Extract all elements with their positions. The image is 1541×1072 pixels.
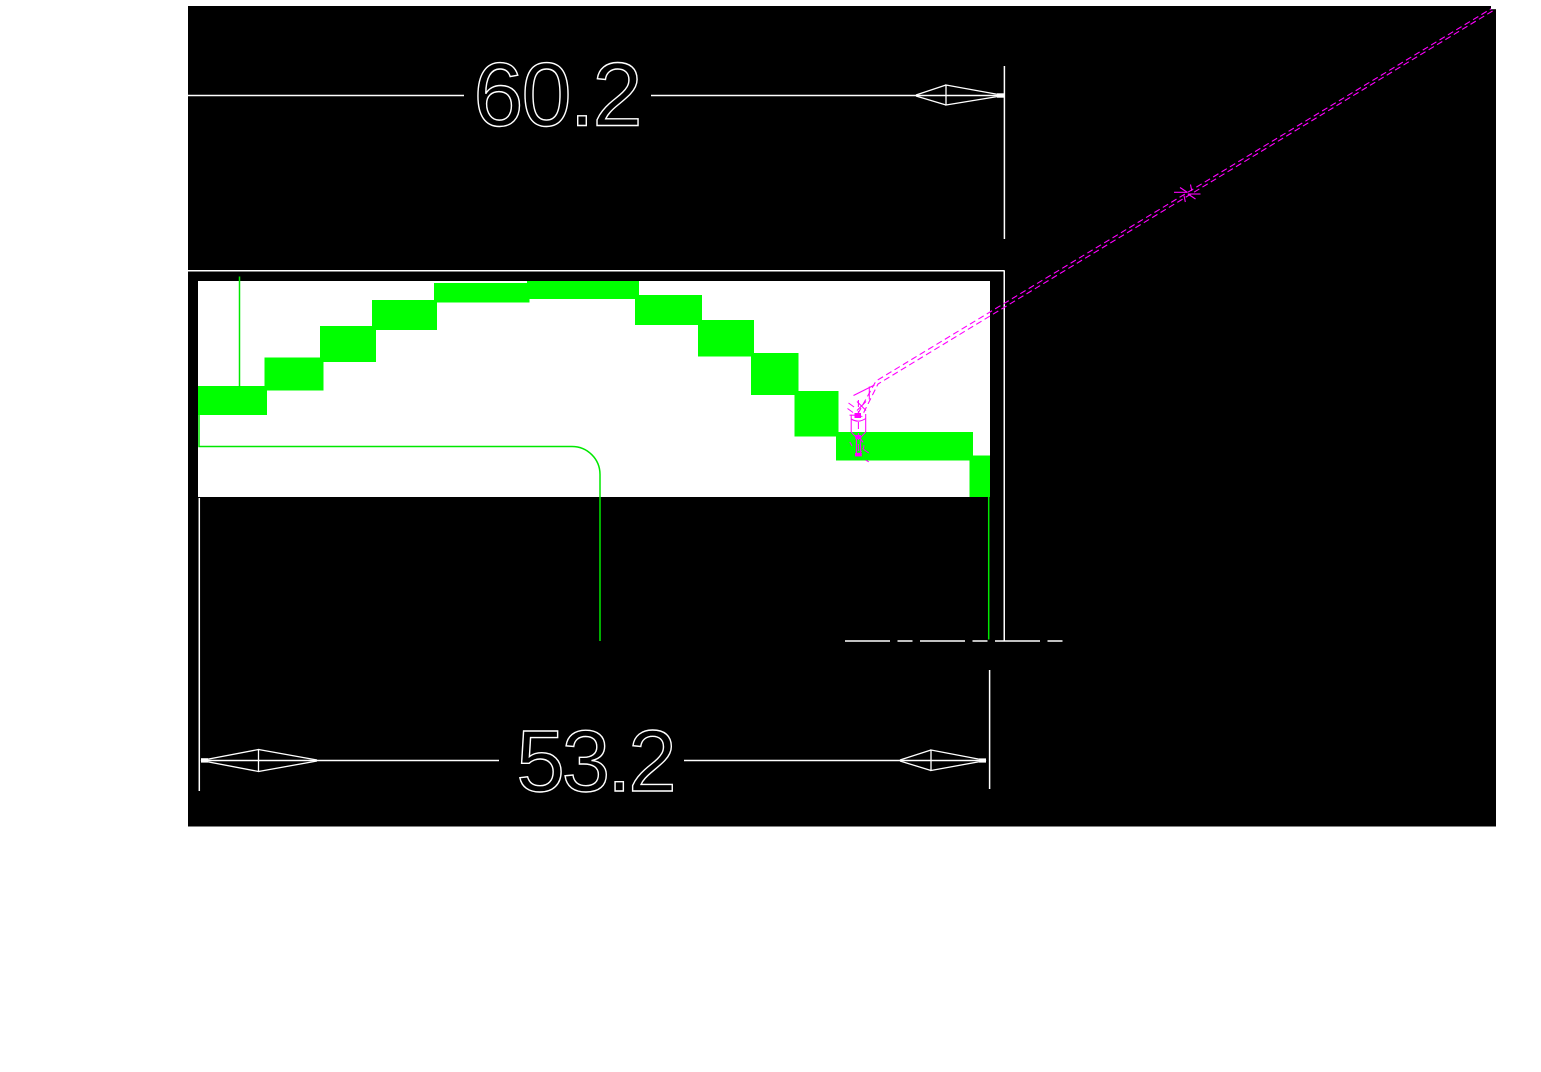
viewport background xyxy=(188,6,1496,827)
dim 53.2 dimension line right segment xyxy=(684,760,985,762)
dim 53.2 left arrowhead xyxy=(201,750,317,772)
dim 53.2 left extension line xyxy=(198,498,200,791)
green toolpath block E xyxy=(434,283,530,303)
dim 60.2 dimension line left segment xyxy=(188,95,464,97)
green toolpath block L xyxy=(970,456,991,498)
green toolpath block F xyxy=(527,281,639,299)
green toolpath block G xyxy=(635,295,702,325)
white dashed centerline xyxy=(845,640,1065,642)
part outline rectangle (white), right edge xyxy=(1003,271,1005,641)
green toolpath block H xyxy=(698,320,754,357)
dim 60.2 extension line xyxy=(1003,66,1005,239)
dim 53.2 dimension line left segment xyxy=(202,760,499,762)
dim 60.2 arrowhead xyxy=(916,85,1004,105)
green toolpath block A xyxy=(198,386,267,415)
magenta bend marker cluster xyxy=(848,385,875,413)
green thin vertical line at right xyxy=(988,497,990,640)
part outline rectangle (white), top edge xyxy=(188,270,1004,272)
green toolpath block J xyxy=(795,391,839,437)
svg-text:60.2: 60.2 xyxy=(473,46,640,146)
green toolpath block I xyxy=(751,353,799,395)
green toolpath block C xyxy=(320,326,376,362)
green thin contour polyline with fillet xyxy=(199,415,600,641)
svg-text:53.2: 53.2 xyxy=(516,713,673,810)
magenta tool marker xyxy=(850,400,869,462)
white cursor blob at viewport corner xyxy=(1491,4,1497,9)
dim 53.2 right extension line xyxy=(989,670,991,789)
green toolpath block B xyxy=(265,358,324,391)
green toolpath block K xyxy=(836,432,973,461)
dim 53.2 right arrowhead xyxy=(900,750,986,771)
green thin vertical entry line xyxy=(239,277,241,388)
magenta mid-leader arrow pair xyxy=(1174,185,1201,203)
green toolpath block D xyxy=(372,300,437,330)
magenta dashed leader line 2 xyxy=(862,9,1496,417)
dim 60.2 dimension line right segment xyxy=(651,95,1001,97)
magenta tool blobs xyxy=(855,413,862,418)
white filled stock region xyxy=(198,281,990,497)
magenta dashed leader line 1 xyxy=(858,7,1494,414)
